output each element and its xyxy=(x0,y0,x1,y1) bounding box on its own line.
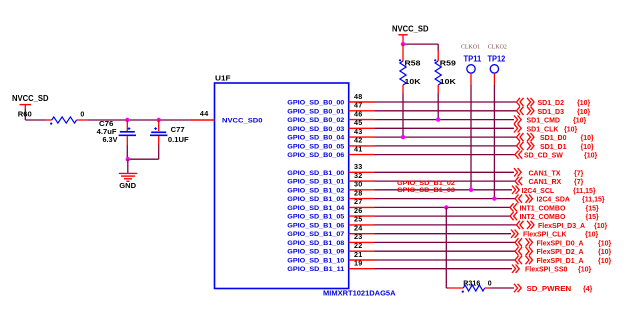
junction R59/SD1_CMD xyxy=(436,117,440,121)
off-page connector I2C4_SDA {11,15} xyxy=(515,194,605,203)
junction R58/SD1_D0 xyxy=(401,135,405,139)
svg-text:NVCC_SD: NVCC_SD xyxy=(12,94,49,103)
wire net FlexSPI_D0_A xyxy=(375,241,516,243)
svg-text:{7}: {7} xyxy=(574,170,584,177)
svg-text:24: 24 xyxy=(354,224,363,233)
wire TP11 to I2C4_SCL row xyxy=(470,85,472,190)
svg-text:SD1_D2: SD1_D2 xyxy=(538,100,565,107)
svg-text:{10}: {10} xyxy=(594,223,608,230)
pin 24 GPIO_SD_B1_07 xyxy=(287,224,374,239)
svg-text:{10}: {10} xyxy=(598,249,612,256)
off-page connector CAN1_RX {7} xyxy=(515,177,584,186)
svg-text:{10}: {10} xyxy=(598,240,612,247)
svg-text:42: 42 xyxy=(354,136,363,145)
svg-text:0: 0 xyxy=(80,112,84,119)
wire net INT1_COMBO xyxy=(375,206,511,208)
svg-text:0: 0 xyxy=(488,280,492,287)
svg-text:GPIO_SD_B0_03: GPIO_SD_B0_03 xyxy=(287,126,344,133)
svg-text:10K: 10K xyxy=(440,79,456,86)
wire net FlexSPI_D3_A xyxy=(375,224,517,226)
svg-text:28: 28 xyxy=(354,188,363,197)
svg-text:I2C4_SCL: I2C4_SCL xyxy=(522,188,555,195)
pin 19 GPIO_SD_B1_11 xyxy=(287,259,374,274)
svg-text:30: 30 xyxy=(354,180,363,189)
pin 28 GPIO_SD_B1_03 xyxy=(287,188,374,203)
svg-text:R59: R59 xyxy=(440,61,456,68)
wire net SD1_D0 xyxy=(375,136,517,138)
svg-text:MIMXRT1021DAG5A: MIMXRT1021DAG5A xyxy=(323,288,396,297)
capacitor C76 4.7uF 6.3V xyxy=(97,120,136,146)
testpoint TP12 xyxy=(488,54,506,85)
resistor R316 0ohm xyxy=(447,280,492,292)
svg-text:{10}: {10} xyxy=(581,144,595,151)
wire SD_PWREN vertical xyxy=(446,207,447,288)
svg-text:FlexSPI_D1_A: FlexSPI_D1_A xyxy=(537,258,584,265)
off-page connector SD_PWREN {4} xyxy=(514,284,593,293)
svg-text:23: 23 xyxy=(354,232,363,241)
svg-text:GPIO_SD_B1_08: GPIO_SD_B1_08 xyxy=(287,240,344,247)
pin 26 GPIO_SD_B1_05 xyxy=(287,206,374,221)
svg-text:{10}: {10} xyxy=(598,258,612,265)
junction C76 tap xyxy=(125,118,129,122)
svg-text:CAN1_TX: CAN1_TX xyxy=(529,170,561,177)
pin 46 GPIO_SD_B0_02 xyxy=(287,109,374,124)
wire power to R58/R59 xyxy=(403,35,438,51)
resistor R60 0ohm xyxy=(18,112,87,125)
svg-text:GPIO_SD_B0_02: GPIO_SD_B0_02 xyxy=(287,117,344,124)
off-page connector INT2_COMBO {15} xyxy=(510,212,599,221)
wire net CAN1_TX xyxy=(375,171,515,173)
svg-text:0.1UF: 0.1UF xyxy=(168,137,189,144)
off-page connector FlexSPI_D2_A {10} xyxy=(515,247,612,256)
off-page connector FlexSPI_CLK {10} xyxy=(511,230,599,239)
svg-text:GPIO_SD_B1_10: GPIO_SD_B1_10 xyxy=(287,258,344,265)
svg-text:GPIO_SD_B0_00: GPIO_SD_B0_00 xyxy=(287,100,344,107)
wire net I2C4_SDA xyxy=(375,198,516,200)
wire net FlexSPI_SS0 xyxy=(375,268,513,270)
wire net SD1_CLK xyxy=(375,127,515,129)
svg-text:{10}: {10} xyxy=(581,135,595,142)
svg-text:21: 21 xyxy=(354,250,363,259)
svg-text:22: 22 xyxy=(354,241,363,250)
wire C77 bottom elbow xyxy=(127,146,158,160)
svg-text:R60: R60 xyxy=(18,112,32,119)
wire net SD1_D3 xyxy=(375,110,517,112)
off-page connector I2C4_SCL {11,15} xyxy=(512,186,596,195)
svg-text:{11,15}: {11,15} xyxy=(582,197,605,204)
pin 27 GPIO_SD_B1_04 xyxy=(287,197,374,212)
junction TP11/I2C4_SCL xyxy=(469,188,473,192)
svg-text:GPIO_SD_B1_03: GPIO_SD_B1_03 xyxy=(287,196,344,203)
off-page connector FlexSPI_D1_A {10} xyxy=(515,256,612,265)
off-page connector SD1_D2 {10} xyxy=(517,98,591,107)
svg-text:{10}: {10} xyxy=(585,232,599,239)
pin 25 GPIO_SD_B1_06 xyxy=(287,215,374,230)
svg-text:R58: R58 xyxy=(405,61,421,68)
off-page connector FlexSPI_D3_A {10} xyxy=(517,221,608,230)
svg-text:INT1_COMBO: INT1_COMBO xyxy=(520,205,566,212)
pin 47 GPIO_SD_B0_01 xyxy=(287,101,374,116)
svg-text:43: 43 xyxy=(354,127,363,136)
svg-text:CLKO1: CLKO1 xyxy=(461,43,480,50)
off-page connector FlexSPI_D0_A {10} xyxy=(515,238,612,247)
svg-text:26: 26 xyxy=(354,206,363,215)
wire NVCC_SD0 rail left elbow xyxy=(25,109,45,120)
svg-text:33: 33 xyxy=(354,162,363,171)
svg-text:FlexSPI_SS0: FlexSPI_SS0 xyxy=(525,267,568,274)
svg-text:45: 45 xyxy=(354,118,363,127)
wire to ground xyxy=(127,159,129,173)
svg-text:NVCC_SD: NVCC_SD xyxy=(392,24,429,33)
wire net SD1_D1 xyxy=(375,145,517,147)
svg-text:FlexSPI_D3_A: FlexSPI_D3_A xyxy=(538,223,585,230)
off-page connector SD1_D1 {10} xyxy=(517,142,595,151)
svg-text:{15}: {15} xyxy=(586,205,600,212)
svg-text:FlexSPI_D0_A: FlexSPI_D0_A xyxy=(537,240,584,247)
svg-text:{10}: {10} xyxy=(577,100,591,107)
pin 44 NVCC_SD0 xyxy=(189,109,262,125)
svg-text:46: 46 xyxy=(354,109,363,118)
off-page connector CAN1_TX {7} xyxy=(514,168,584,177)
svg-text:GPIO_SD_B1_00: GPIO_SD_B1_00 xyxy=(287,170,344,177)
junction C77 tap xyxy=(157,118,161,122)
pin 21 GPIO_SD_B1_10 xyxy=(287,250,374,265)
svg-text:{10}: {10} xyxy=(577,109,591,116)
pin 23 GPIO_SD_B1_08 xyxy=(287,232,374,247)
pin 30 GPIO_SD_B1_02 xyxy=(287,180,374,195)
svg-text:GPIO_SD_B1_06: GPIO_SD_B1_06 xyxy=(287,222,344,229)
svg-text:41: 41 xyxy=(354,144,363,153)
off-page connector INT1_COMBO {15} xyxy=(510,203,599,212)
svg-text:CAN1_RX: CAN1_RX xyxy=(529,179,562,186)
capacitor C77 0.1UF xyxy=(150,120,189,146)
svg-text:44: 44 xyxy=(200,109,209,118)
svg-text:CLKO2: CLKO2 xyxy=(488,43,507,50)
svg-text:GPIO_SD_B1_11: GPIO_SD_B1_11 xyxy=(287,266,344,273)
power symbol NVCC_SD (top) xyxy=(392,24,429,34)
off-page connector SD1_CMD {10} xyxy=(514,115,587,124)
svg-text:TP12: TP12 xyxy=(488,54,506,63)
wire net FlexSPI_D1_A xyxy=(375,259,516,261)
pin 33 GPIO_SD_B1_00 xyxy=(287,162,374,177)
svg-text:GPIO_SD_B0_01: GPIO_SD_B0_01 xyxy=(287,108,344,115)
svg-text:I2C4_SDA: I2C4_SDA xyxy=(537,197,570,204)
pin 45 GPIO_SD_B0_03 xyxy=(287,118,374,133)
pin 41 GPIO_SD_B0_06 xyxy=(287,144,374,159)
svg-text:TP11: TP11 xyxy=(464,54,482,63)
junction TP12/I2C4_SDA xyxy=(492,196,496,200)
op chip U1F MIMXRT1021DAG5A xyxy=(215,76,396,298)
svg-text:SD1_CLK: SD1_CLK xyxy=(527,126,559,133)
svg-text:{10}: {10} xyxy=(578,267,592,274)
svg-text:SD1_D3: SD1_D3 xyxy=(538,109,565,116)
svg-text:C77: C77 xyxy=(171,127,185,134)
svg-text:SD_CD_SW: SD_CD_SW xyxy=(524,153,563,160)
wire net SD1_CMD xyxy=(375,119,515,121)
off-page connector SD1_D0 {10} xyxy=(517,133,595,142)
off-page connector SD_CD_SW {10} xyxy=(515,150,598,159)
wire C76 bottom xyxy=(126,146,128,160)
pin 22 GPIO_SD_B1_09 xyxy=(287,241,374,256)
off-page connector SD1_CLK {10} xyxy=(514,124,578,133)
svg-text:GPIO_SD_B0_05: GPIO_SD_B0_05 xyxy=(287,143,344,150)
svg-text:SD_PWREN: SD_PWREN xyxy=(527,286,572,293)
wire net FlexSPI_D2_A xyxy=(375,250,516,252)
svg-text:GPIO_SD_B1_02: GPIO_SD_B1_02 xyxy=(287,187,344,194)
svg-text:SD1_CMD: SD1_CMD xyxy=(527,118,560,125)
svg-text:C76: C76 xyxy=(99,121,114,128)
resistor R59 10K xyxy=(434,50,456,94)
svg-text:{10}: {10} xyxy=(564,126,578,133)
svg-text:FlexSPI_CLK: FlexSPI_CLK xyxy=(523,232,567,239)
svg-text:32: 32 xyxy=(354,171,363,180)
svg-text:25: 25 xyxy=(354,215,363,224)
svg-text:FlexSPI_D2_A: FlexSPI_D2_A xyxy=(537,249,584,256)
svg-text:{11,15}: {11,15} xyxy=(573,188,596,195)
svg-text:{10}: {10} xyxy=(573,118,587,125)
pin 32 GPIO_SD_B1_01 xyxy=(287,171,374,186)
svg-text:27: 27 xyxy=(354,197,363,206)
junction SD_PWREN tap xyxy=(444,205,448,209)
svg-text:U1F: U1F xyxy=(215,76,231,83)
svg-text:SD1_D1: SD1_D1 xyxy=(540,144,567,151)
svg-text:19: 19 xyxy=(354,259,363,268)
svg-text:INT2_COMBO: INT2_COMBO xyxy=(520,214,566,221)
svg-text:GPIO_SD_B1_04: GPIO_SD_B1_04 xyxy=(287,205,344,212)
svg-text:GPIO_SD_B1_07: GPIO_SD_B1_07 xyxy=(287,231,344,238)
wire net FlexSPI_CLK xyxy=(375,233,512,235)
wire net I2C4_SCL xyxy=(375,189,513,191)
wire TP12 to I2C4_SDA row xyxy=(493,85,495,199)
pin 48 GPIO_SD_B0_00 xyxy=(287,92,374,107)
svg-text:{7}: {7} xyxy=(574,179,584,186)
svg-text:GPIO_SD_B1_09: GPIO_SD_B1_09 xyxy=(287,249,344,256)
junction ground node xyxy=(126,157,130,161)
svg-text:4.7uF: 4.7uF xyxy=(97,129,118,136)
wire net SD_CD_SW xyxy=(375,154,516,156)
svg-text:10K: 10K xyxy=(405,79,421,86)
pin 42 GPIO_SD_B0_05 xyxy=(287,136,374,151)
svg-text:GPIO_SD_B0_04: GPIO_SD_B0_04 xyxy=(287,135,344,142)
svg-text:GPIO_SD_B1_01: GPIO_SD_B1_01 xyxy=(287,179,344,186)
svg-text:SD1_D0: SD1_D0 xyxy=(540,135,567,142)
svg-text:{4}: {4} xyxy=(583,286,593,293)
pin 43 GPIO_SD_B0_04 xyxy=(287,127,374,142)
svg-text:GND: GND xyxy=(119,183,136,190)
wire R316 to SD_PWREN connector xyxy=(491,287,515,289)
svg-text:GPIO_SD_B0_06: GPIO_SD_B0_06 xyxy=(287,152,344,159)
svg-text:NVCC_SD0: NVCC_SD0 xyxy=(222,117,263,124)
ground GND xyxy=(119,173,137,190)
wire R58 to SD1_D0 row xyxy=(402,94,404,138)
svg-text:GPIO_SD_B1_03: GPIO_SD_B1_03 xyxy=(397,187,455,194)
wire net CAN1_RX xyxy=(375,180,516,182)
svg-text:47: 47 xyxy=(354,101,363,110)
off-page connector SD1_D3 {10} xyxy=(517,107,591,116)
testpoint TP11 xyxy=(464,54,482,85)
resistor R58 10K xyxy=(399,44,421,93)
svg-text:48: 48 xyxy=(354,92,363,101)
svg-text:{15}: {15} xyxy=(586,214,600,221)
wire NVCC_SD0 rail to pin 44 xyxy=(87,119,189,121)
wire net INT2_COMBO xyxy=(375,215,511,217)
wire R59 to SD1_CMD row xyxy=(437,94,439,120)
junction power node xyxy=(401,42,405,46)
svg-text:{10}: {10} xyxy=(584,153,598,160)
off-page connector FlexSPI_SS0 {10} xyxy=(512,265,592,274)
svg-text:GPIO_SD_B1_05: GPIO_SD_B1_05 xyxy=(287,214,344,221)
svg-text:6.3V: 6.3V xyxy=(103,137,118,144)
wire net SD1_D2 xyxy=(375,101,517,103)
power symbol NVCC_SD (left) xyxy=(12,94,49,109)
